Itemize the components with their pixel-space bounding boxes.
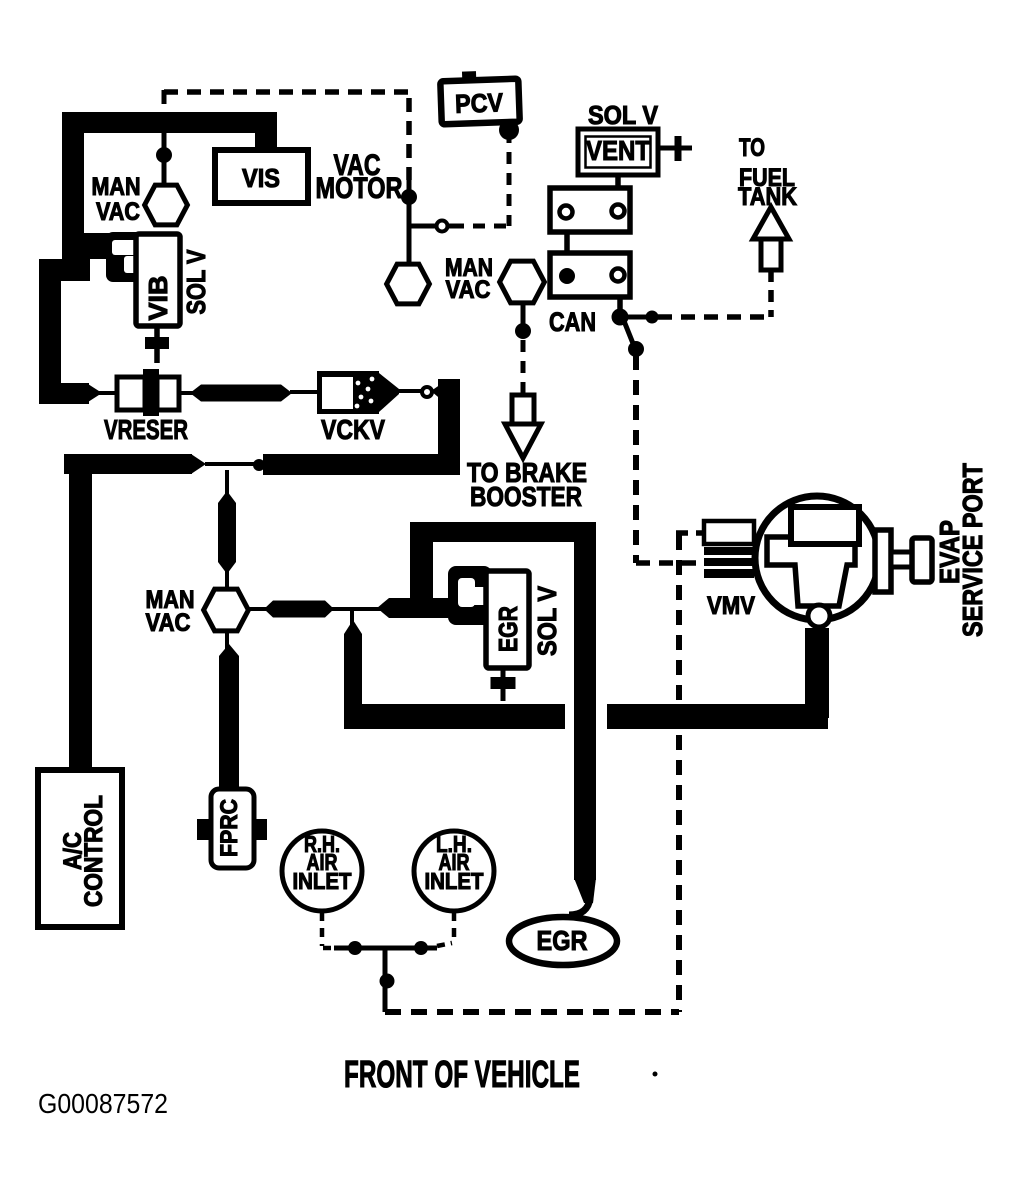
svg-text:SERVICE PORT: SERVICE PORT: [957, 463, 988, 637]
svg-text:SOL V: SOL V: [532, 585, 562, 656]
svg-text:VAC: VAC: [96, 198, 140, 226]
svg-text:INLET: INLET: [293, 868, 352, 894]
svg-text:EGR: EGR: [537, 925, 588, 956]
svg-text:TANK: TANK: [738, 183, 797, 211]
svg-text:INLET: INLET: [425, 868, 484, 894]
svg-text:FRONT OF VEHICLE: FRONT OF VEHICLE: [344, 1054, 580, 1096]
svg-text:BOOSTER: BOOSTER: [470, 481, 582, 512]
svg-text:CAN: CAN: [549, 307, 596, 337]
svg-text:MAN: MAN: [92, 173, 141, 201]
svg-text:VRESER: VRESER: [104, 414, 188, 445]
svg-text:PCV: PCV: [455, 87, 505, 119]
svg-text:SOL V: SOL V: [588, 100, 659, 130]
svg-text:VIB: VIB: [143, 276, 173, 321]
svg-text:CONTROL: CONTROL: [80, 795, 108, 907]
svg-text:SOL V: SOL V: [181, 249, 211, 315]
svg-text:VCKV: VCKV: [321, 414, 385, 445]
svg-text:VIS: VIS: [242, 163, 280, 193]
svg-text:FPRC: FPRC: [216, 799, 243, 857]
svg-text:TO: TO: [739, 134, 765, 162]
svg-text:VMV: VMV: [707, 592, 755, 620]
svg-text:VENT: VENT: [586, 135, 650, 166]
svg-text:G00087572: G00087572: [38, 1088, 168, 1119]
svg-text:VAC: VAC: [146, 609, 191, 637]
svg-text:EGR: EGR: [493, 606, 523, 652]
svg-text:MOTOR: MOTOR: [316, 172, 403, 205]
svg-text:VAC: VAC: [446, 276, 491, 304]
